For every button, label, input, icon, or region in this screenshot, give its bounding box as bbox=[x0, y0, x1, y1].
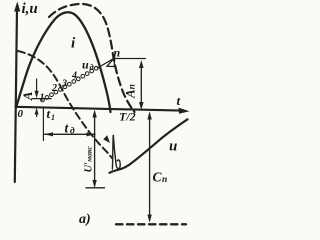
svg-text:1: 1 bbox=[40, 93, 45, 104]
curve u-supply (big dashed) bbox=[49, 4, 135, 112]
dim Ап vertical line bbox=[140, 63, 142, 108]
n reference line bbox=[114, 58, 146, 60]
svg-text:i,u: i,u bbox=[22, 1, 38, 17]
marker triangle at n bbox=[107, 58, 115, 67]
svg-text:u: u bbox=[82, 58, 89, 72]
axis i,u (vertical) bbox=[15, 8, 17, 182]
svg-text:i: i bbox=[71, 36, 76, 52]
tooth-1 top reference line bbox=[32, 98, 51, 100]
svg-text:а): а) bbox=[79, 212, 91, 227]
svg-text:2: 2 bbox=[51, 83, 57, 94]
svg-text:t: t bbox=[65, 121, 70, 136]
dim Cп vertical line bbox=[149, 114, 151, 220]
svg-text:t: t bbox=[47, 106, 51, 121]
dim A arrow upper bbox=[36, 79, 38, 95]
curve i bbox=[17, 12, 111, 112]
svg-text:t: t bbox=[177, 93, 181, 108]
svg-text:п: п bbox=[162, 175, 167, 185]
axis t (horizontal) bbox=[16, 107, 182, 111]
svg-text:Aп: Aп bbox=[123, 84, 138, 99]
svg-text:0: 0 bbox=[18, 108, 24, 120]
svg-text:1: 1 bbox=[51, 113, 55, 122]
u spike (oscillation burst) bbox=[112, 135, 115, 169]
svg-text:C: C bbox=[153, 170, 163, 185]
dim U'макс vertical line bbox=[94, 113, 96, 186]
U'макс base line bbox=[86, 187, 105, 189]
arrowhead on uд trajectory bbox=[103, 135, 110, 143]
svg-text:U′макс: U′макс bbox=[84, 146, 95, 173]
dim A arrow lower bbox=[36, 111, 38, 117]
svg-text:д: д bbox=[70, 126, 75, 137]
dim tд horizontal line bbox=[45, 133, 96, 135]
svg-text:T/2: T/2 bbox=[119, 110, 136, 124]
svg-text:4: 4 bbox=[71, 71, 77, 82]
u small loop bbox=[116, 160, 120, 169]
u curve main bbox=[110, 119, 188, 173]
svg-text:3: 3 bbox=[61, 79, 67, 90]
wire squiggle to n bbox=[98, 58, 114, 68]
t1 boundary tick bbox=[42, 108, 44, 140]
dashed bottom reference line bbox=[116, 223, 186, 225]
curve u-delay dashed (descending) bbox=[18, 51, 112, 158]
svg-text:A: A bbox=[20, 91, 35, 101]
squiggle uд (oscillation circle chain) bbox=[41, 66, 98, 101]
svg-text:u: u bbox=[169, 139, 177, 155]
